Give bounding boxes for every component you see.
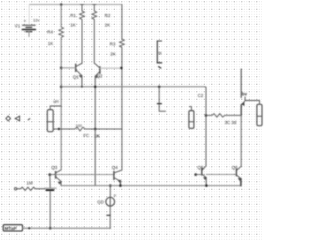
node Q2 emitter on bus (94, 86, 97, 89)
svg-text:2K: 2K (110, 51, 116, 56)
wire x=241 down to Q6 (240, 115, 242, 166)
wire Q2 emitter down through long wire (94, 76, 96, 129)
transistor Q5 (202, 166, 206, 186)
polarity tick on lower lead (107, 214, 110, 216)
transistor Q3 (56, 170, 62, 186)
wire y=129 with resistor R5 (54, 127, 122, 131)
wire spine x=61 upper (60, 5, 62, 28)
svg-text:1K: 1K (105, 23, 111, 28)
resistor R6 (input, horizontal) (14, 187, 44, 190)
svg-text:V1: V1 (15, 23, 21, 28)
resistor R8 (horizontal) (206, 114, 241, 117)
capacitor C1 (left rectangle) (47, 106, 61, 132)
node box lead (28, 227, 30, 229)
wire right spine x=206 from bus corner (205, 87, 206, 166)
wire battery positive lead up to rail (28, 5, 30, 25)
svg-text:C2: C2 (198, 93, 204, 98)
node spine/long-wire junction (60, 86, 63, 89)
node Q3 base dot (48, 173, 51, 176)
svg-text:3C 3d: 3C 3d (225, 120, 237, 125)
wire Q2 base to R3 line (100, 67, 122, 69)
capacitor C2 (middle rectangle) (189, 107, 194, 129)
node bus / drop x=159 (158, 86, 161, 89)
label box (bottom left) (3, 225, 22, 231)
node below bracket (159, 67, 161, 68)
wire +V top rail (30, 4, 122, 6)
svg-text:Q3: Q3 (51, 165, 58, 170)
svg-text:12v: 12v (33, 17, 39, 22)
svg-text:Q6: Q6 (232, 165, 239, 170)
node Q2 base / R3 line (120, 67, 123, 70)
transistor Q7 (output, top right) (241, 69, 259, 115)
node small mark right of terminals (28, 119, 30, 120)
wire bus x=110 down (109, 186, 111, 198)
svg-text:Q2: Q2 (96, 73, 103, 78)
svg-text:GD: GD (97, 199, 104, 204)
svg-text:Q4: Q4 (112, 165, 119, 170)
svg-text:MTaP: MTaP (5, 226, 17, 231)
svg-text:R4: R4 (47, 30, 53, 35)
node Q4 emitter (119, 184, 122, 187)
node spine/Q1 base junction (60, 67, 63, 70)
wire down to bottom rail (49, 191, 51, 228)
wire Q3 base down to ground plates (49, 175, 51, 188)
resistor R1 (80, 5, 85, 64)
svg-text:1K: 1K (70, 23, 76, 28)
wire Q5 emitter to Q6 base y=174.4 (206, 173, 236, 175)
wire spine x=61 middle (60, 38, 62, 170)
svg-text:100: 100 (76, 124, 82, 128)
input terminal triangle (15, 116, 19, 121)
node on bottom rail (49, 227, 52, 230)
svg-text:bv: bv (242, 92, 248, 97)
capacitor C3 (right rectangle) (257, 104, 262, 125)
transistor Q4 (114, 170, 122, 186)
svg-text:Q1: Q1 (73, 75, 80, 80)
wire Q1 base (61, 67, 75, 69)
wire lower emitter bus y=185.6 (61, 185, 241, 187)
svg-text:1M: 1M (27, 180, 33, 185)
wire R3 line to Q4 collector (121, 129, 123, 170)
resistor R4 (59, 27, 64, 38)
capacitor/ground plate thick (46, 189, 53, 191)
node top of spine (junction dot) (60, 3, 63, 6)
input terminal diamond (6, 116, 11, 121)
node Q5 emitter on bus (205, 184, 208, 187)
transistor Q6 (236, 166, 241, 185)
wire bottom rail (23, 227, 111, 229)
transistor Q2 (95, 63, 100, 78)
wire mirror bases y=174.6 (56, 174, 114, 176)
svg-text:FC: FC (83, 133, 89, 138)
node Q1 emitter on bus (81, 86, 83, 88)
svg-text:R3: R3 (110, 41, 116, 46)
node Q5 base dot (194, 173, 197, 176)
node bus/x110 (109, 184, 112, 187)
svg-text:R1: R1 (70, 13, 76, 18)
svg-text:1K: 1K (48, 41, 54, 46)
svg-text:uH: uH (53, 99, 58, 104)
svg-text:Q5: Q5 (197, 165, 204, 170)
battery V1 (22, 25, 35, 36)
svg-text:R2: R2 (105, 13, 111, 18)
wire Q5 base stub (196, 174, 202, 176)
svg-text:+: + (24, 18, 27, 23)
svg-text:ts: ts (158, 51, 161, 56)
capacitor plate mark on drop (157, 103, 161, 105)
wire below source to rail (109, 206, 111, 228)
node wire129 left (58, 128, 60, 130)
node x206 / R8 junction (205, 114, 208, 117)
capacitor/ground plate thin (45, 187, 56, 189)
connector bracket J1 (157, 41, 161, 63)
wire Q3 base stub (50, 174, 56, 176)
current source circle (106, 197, 115, 206)
wire long emitter bus y=86.8 (61, 86, 205, 88)
wire drop x=159 with plate (159, 87, 165, 111)
svg-text:n: n (114, 192, 116, 197)
transistor Q1 (76, 63, 82, 87)
node wire129 / x95 line (94, 128, 97, 131)
wire x=95 lower (94, 129, 96, 186)
resistor R2 (92, 5, 97, 64)
resistor R3 (120, 5, 125, 130)
current source internal line (109, 197, 111, 206)
